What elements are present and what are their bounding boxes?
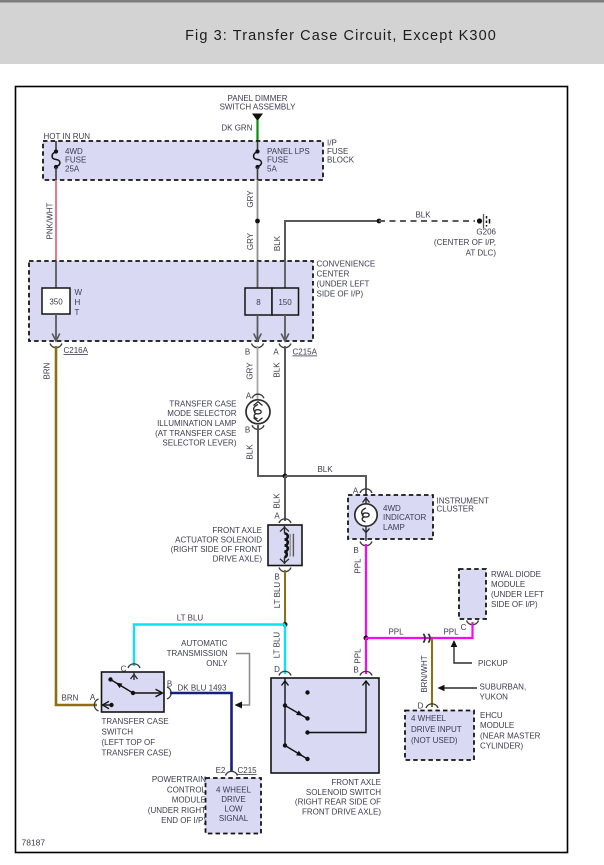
svg-text:AUTOMATIC: AUTOMATIC	[181, 639, 228, 648]
svg-text:(UNDER LEFT: (UNDER LEFT	[491, 590, 544, 599]
wire + arrow below 150	[284, 315, 286, 339]
wire BLK from lamp to junction	[258, 425, 285, 476]
node junction on GRY wire	[255, 219, 260, 224]
svg-text:RWAL DIODE: RWAL DIODE	[491, 570, 541, 579]
svg-text:150: 150	[278, 298, 292, 307]
svg-text:(AT TRANSFER CASE: (AT TRANSFER CASE	[155, 429, 236, 438]
svg-text:ONLY: ONLY	[206, 659, 228, 668]
svg-text:PPL: PPL	[354, 648, 363, 664]
svg-text:(UNDER RIGHT: (UNDER RIGHT	[148, 806, 206, 815]
svg-text:CENTER: CENTER	[317, 270, 350, 279]
wire PPL cluster to junction	[365, 544, 367, 638]
PCM 4 WHEEL DRIVE LOW SIGNAL box	[206, 778, 262, 834]
svg-text:BLK: BLK	[246, 444, 255, 460]
wire BLK from A down	[284, 346, 286, 476]
svg-text:SUBURBAN,: SUBURBAN,	[480, 683, 527, 692]
label AUTOMATIC TRANSMISSION ONLY	[167, 639, 229, 668]
svg-text:PPL: PPL	[354, 558, 363, 574]
label FRONT AXLE SOLENOID SWITCH	[295, 778, 381, 816]
svg-text:INDICATOR: INDICATOR	[383, 513, 426, 522]
connector arc E2	[226, 771, 238, 775]
svg-text:A: A	[90, 693, 96, 702]
front axle solenoid switch box	[271, 678, 379, 773]
svg-text:SOLENOID SWITCH: SOLENOID SWITCH	[306, 788, 381, 797]
connector arc actuator top	[279, 519, 291, 523]
svg-text:8: 8	[256, 298, 261, 307]
svg-text:PANEL LPS: PANEL LPS	[267, 147, 310, 156]
wire lead into 150	[284, 261, 286, 288]
svg-text:SIDE OF I/P): SIDE OF I/P)	[317, 290, 364, 299]
svg-text:4WD: 4WD	[383, 504, 401, 513]
svg-text:CONVENIENCE: CONVENIENCE	[317, 260, 376, 269]
svg-text:(CENTER OF I/P,: (CENTER OF I/P,	[434, 238, 496, 247]
node junction BLK	[283, 474, 288, 479]
I/P fuse block box	[43, 141, 323, 180]
label EHCU MODULE (NEAR MASTER CYLINDER)	[480, 711, 541, 751]
label RWAL DIODE MODULE (UNDER LEFT SIDE OF I/P)	[491, 570, 544, 609]
svg-text:DRIVE AXLE): DRIVE AXLE)	[213, 555, 263, 564]
node splice dot	[377, 219, 382, 224]
svg-text:4 WHEEL: 4 WHEEL	[411, 714, 447, 723]
convenience center box	[29, 261, 313, 341]
RWAL diode module box	[459, 569, 486, 619]
svg-text:POWERTRAIN: POWERTRAIN	[152, 775, 206, 784]
connector arcs C215A	[252, 344, 264, 348]
node junction LT BLU	[283, 622, 288, 627]
svg-text:PICKUP: PICKUP	[478, 659, 508, 668]
component front axle actuator solenoid U	[268, 525, 302, 566]
leader SUBURBAN YUKON	[440, 687, 477, 689]
connector arc lamp bottom	[252, 425, 264, 429]
svg-text:B: B	[274, 573, 279, 582]
svg-text:CONTROL: CONTROL	[167, 785, 207, 794]
svg-text:LT BLU: LT BLU	[177, 614, 204, 623]
svg-text:BLK: BLK	[273, 235, 282, 251]
svg-text:DRIVE INPUT: DRIVE INPUT	[411, 725, 462, 734]
lamp illumination symbol	[246, 400, 270, 424]
svg-text:PPL: PPL	[443, 628, 459, 637]
component 350 box	[42, 288, 70, 314]
leader automatic transmission only	[236, 654, 250, 706]
svg-text:A: A	[246, 392, 252, 401]
ground G206	[477, 214, 490, 229]
wire BLK up from convenience center then right	[285, 221, 379, 261]
svg-text:C215: C215	[238, 766, 258, 775]
label SUBURBAN, YUKON	[480, 683, 527, 702]
node junction PPL	[364, 636, 369, 641]
svg-text:CLUSTER: CLUSTER	[437, 505, 475, 514]
label G206 (CENTER OF I/P, AT DLC)	[434, 228, 497, 258]
wire LT BLU horizontal to transfer case switch	[134, 625, 285, 667]
svg-text:H: H	[75, 298, 81, 307]
svg-text:SIDE OF I/P): SIDE OF I/P)	[491, 600, 538, 609]
wire PPL junction to RWAL	[366, 622, 473, 638]
svg-text:G206: G206	[476, 228, 496, 237]
wire + arrow below 350	[55, 314, 57, 339]
connector arc actuator bottom	[279, 568, 291, 572]
svg-text:(UNDER LEFT: (UNDER LEFT	[317, 280, 370, 289]
wire BLK dashed to ground	[379, 220, 475, 222]
svg-text:DRIVE: DRIVE	[221, 795, 245, 804]
label FRONT AXLE ACTUATOR SOLENOID	[171, 526, 263, 564]
svg-text:BLK: BLK	[273, 362, 282, 378]
svg-text:C216A: C216A	[64, 346, 89, 355]
svg-text:AT DLC): AT DLC)	[466, 249, 497, 258]
label CONVENIENCE CENTER (UNDER LEFT SIDE OF I/P)	[317, 260, 376, 299]
instrument cluster box	[348, 495, 433, 539]
svg-text:4WD: 4WD	[65, 147, 83, 156]
wire BRN/WHT	[431, 638, 433, 707]
svg-text:B: B	[353, 546, 358, 555]
svg-text:25A: 25A	[65, 164, 80, 173]
svg-text:Fig 3: Transfer Case Circuit,: Fig 3: Transfer Case Circuit, Except K30…	[185, 28, 497, 44]
svg-text:BLK: BLK	[317, 465, 333, 474]
label TRANSFER CASE SWITCH (LEFT TOP OF TRANSFER CASE)	[102, 717, 172, 758]
wire LT BLU (drawn olive) actuator to junction	[284, 570, 286, 622]
svg-text:BRN: BRN	[43, 362, 52, 379]
wire BLK to instrument cluster	[285, 476, 366, 492]
svg-text:LT BLU: LT BLU	[273, 582, 282, 609]
wire lead into 350	[55, 261, 57, 288]
svg-text:GRY: GRY	[246, 362, 255, 380]
svg-text:(NOT USED): (NOT USED)	[411, 736, 458, 745]
svg-text:ILLUMINATION LAMP: ILLUMINATION LAMP	[157, 419, 236, 428]
svg-text:D: D	[274, 665, 280, 674]
leader PICKUP	[454, 644, 472, 663]
wire DK BLU 1493	[170, 693, 232, 772]
svg-text:GRY: GRY	[246, 232, 255, 250]
wire PNK/WHT	[55, 180, 57, 261]
connector arc RWAL bottom	[467, 621, 479, 625]
label POWERTRAIN CONTROL MODULE	[148, 775, 207, 825]
svg-text:GRY: GRY	[246, 190, 255, 208]
connector arc solenoid switch D	[279, 671, 291, 675]
svg-text:BLK: BLK	[415, 211, 431, 220]
svg-text:TRANSMISSION: TRANSMISSION	[167, 649, 228, 658]
svg-text:TRANSFER CASE): TRANSFER CASE)	[102, 749, 172, 758]
connector triangle to panel dimmer switch	[252, 114, 263, 122]
svg-text:SELECTOR LEVER): SELECTOR LEVER)	[162, 439, 236, 448]
connector arc EHCU D	[426, 704, 438, 708]
svg-text:EHCU: EHCU	[480, 711, 503, 720]
label TRANSFER CASE MODE SELECTOR ILLUMINATION LAMP	[155, 400, 237, 448]
svg-text:(LEFT TOP OF: (LEFT TOP OF	[102, 738, 156, 747]
node PANEL DIMMER SWITCH ASSEMBLY label	[220, 94, 297, 112]
wire BLK junction to actuator solenoid	[284, 476, 286, 521]
svg-text:FRONT AXLE: FRONT AXLE	[331, 778, 381, 787]
svg-text:TRANSFER CASE: TRANSFER CASE	[102, 717, 169, 726]
connector arc cluster top	[360, 489, 372, 493]
svg-text:W: W	[75, 288, 83, 297]
transfer case switch box	[102, 672, 165, 712]
component 8 box	[245, 288, 272, 315]
connector arc lamp top	[252, 394, 264, 398]
svg-text:350: 350	[49, 298, 63, 307]
wire PPL junction to solenoid switch B	[365, 638, 367, 674]
wire GRY to lamp	[257, 346, 259, 400]
switch internals	[103, 672, 163, 709]
svg-text:A: A	[273, 348, 279, 357]
svg-text:(RIGHT SIDE OF FRONT: (RIGHT SIDE OF FRONT	[171, 545, 263, 554]
lamp 4WD INDICATOR LAMP	[355, 497, 427, 541]
wire BRN down left side	[56, 346, 97, 705]
svg-text:LOW: LOW	[224, 805, 243, 814]
label W H T	[75, 288, 83, 317]
svg-text:D: D	[418, 702, 424, 711]
svg-text:4 WHEEL: 4 WHEEL	[216, 786, 252, 795]
svg-text:B: B	[245, 348, 250, 357]
wire GRY upper	[257, 180, 259, 261]
svg-text:BRN: BRN	[62, 694, 79, 703]
svg-text:YUKON: YUKON	[480, 693, 509, 702]
svg-text:BLK: BLK	[273, 493, 282, 509]
svg-text:(NEAR MASTER: (NEAR MASTER	[480, 732, 541, 741]
svg-text:MODE SELECTOR: MODE SELECTOR	[167, 409, 236, 418]
svg-text:SIGNAL: SIGNAL	[219, 814, 249, 823]
svg-text:(RIGHT REAR SIDE OF: (RIGHT REAR SIDE OF	[295, 798, 381, 807]
svg-text:SWITCH: SWITCH	[102, 728, 134, 737]
svg-text:END OF I/P): END OF I/P)	[161, 816, 206, 825]
svg-text:LT BLU: LT BLU	[273, 632, 282, 659]
svg-text:SWITCH ASSEMBLY: SWITCH ASSEMBLY	[220, 103, 297, 112]
wire BLK instrument cluster lead	[365, 492, 367, 498]
svg-text:DK BLU 1493: DK BLU 1493	[178, 684, 227, 693]
svg-text:PPL: PPL	[388, 628, 404, 637]
svg-text:A: A	[274, 512, 280, 521]
svg-text:BRN/WHT: BRN/WHT	[420, 655, 429, 692]
EHCU 4 WHEEL DRIVE INPUT box	[405, 711, 474, 761]
svg-text:C: C	[461, 623, 467, 632]
svg-text:T: T	[75, 308, 80, 317]
component 150 box	[272, 288, 299, 315]
svg-text:MODULE: MODULE	[172, 796, 206, 805]
connector arc solenoid switch B	[360, 671, 372, 675]
label INSTRUMENT CLUSTER	[437, 497, 490, 514]
inline connector arcs on PPL wire	[423, 634, 425, 643]
svg-text:TRANSFER CASE: TRANSFER CASE	[169, 400, 236, 409]
connector arc switch A	[94, 699, 98, 711]
svg-text:B: B	[353, 666, 358, 675]
connector arc switch C	[128, 664, 140, 668]
svg-text:78187: 78187	[22, 838, 46, 848]
connector arc switch B	[167, 687, 171, 699]
svg-text:FRONT DRIVE AXLE): FRONT DRIVE AXLE)	[302, 807, 381, 816]
svg-text:LAMP: LAMP	[383, 523, 405, 532]
title band	[0, 0, 604, 64]
label I/P FUSE BLOCK	[327, 139, 355, 165]
svg-text:DK GRN: DK GRN	[221, 124, 252, 133]
svg-text:HOT IN RUN: HOT IN RUN	[44, 132, 91, 141]
solenoid switch internals	[282, 678, 370, 761]
wire DK GRN from panel dimmer switch to fuse	[256, 120, 258, 142]
svg-text:MODULE: MODULE	[491, 580, 525, 589]
svg-text:ACTUATOR SOLENOID: ACTUATOR SOLENOID	[175, 536, 262, 545]
svg-text:BLOCK: BLOCK	[327, 156, 355, 165]
svg-text:C215A: C215A	[293, 348, 318, 357]
connector C216A arc	[50, 344, 62, 348]
svg-text:E2: E2	[216, 766, 226, 775]
svg-text:5A: 5A	[267, 164, 277, 173]
wire + arrow below 8	[257, 315, 259, 339]
connector arc cluster bottom	[360, 542, 372, 546]
wire lead into 8	[257, 261, 259, 288]
svg-text:B: B	[245, 426, 250, 435]
svg-text:CYLINDER): CYLINDER)	[480, 742, 523, 751]
svg-text:PNK/WHT: PNK/WHT	[46, 202, 55, 239]
svg-text:FRONT AXLE: FRONT AXLE	[212, 526, 262, 535]
svg-text:MODULE: MODULE	[480, 721, 514, 730]
wire LT BLU junction down to solenoid switch	[284, 625, 286, 675]
fuse PANEL LPS FUSE 5A	[254, 142, 310, 180]
fuse 4WD FUSE 25A	[52, 141, 86, 180]
